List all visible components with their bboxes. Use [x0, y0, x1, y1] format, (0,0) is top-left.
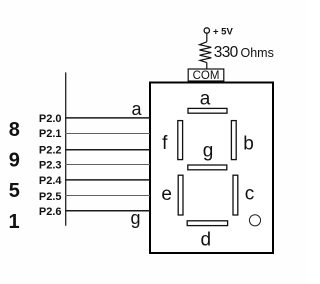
7-segment display body: [150, 83, 273, 254]
wire P2.4: [65, 179, 150, 181]
svg-text:5: 5: [9, 180, 20, 202]
segment a: [188, 108, 227, 113]
wire terminal to resistor: [206, 33, 208, 41]
svg-text:8: 8: [9, 119, 20, 141]
svg-text:g: g: [130, 208, 140, 228]
COM pin box: [188, 69, 224, 81]
svg-text:a: a: [200, 88, 211, 109]
svg-text:P2.6: P2.6: [39, 206, 62, 218]
segment e: [178, 175, 183, 215]
svg-text:P2.5: P2.5: [39, 191, 62, 203]
segment f: [178, 121, 183, 160]
wire P2.2: [65, 149, 150, 151]
wire resistor to COM: [206, 63, 208, 69]
segment d: [187, 221, 227, 226]
svg-text:9: 9: [9, 149, 20, 171]
wire P2.3: [65, 164, 150, 166]
wire P2.6 to segment g: [65, 210, 150, 212]
svg-text:P2.0: P2.0: [39, 113, 62, 125]
+5V supply terminal: [204, 28, 209, 33]
svg-text:g: g: [203, 140, 214, 161]
svg-text:f: f: [162, 133, 168, 154]
port bus vertical line: [65, 72, 67, 225]
svg-text:330: 330: [214, 44, 239, 61]
svg-text:1: 1: [8, 211, 19, 233]
wire P2.1: [65, 133, 150, 135]
segment c: [233, 175, 238, 215]
svg-text:P2.4: P2.4: [39, 175, 63, 187]
segment b: [231, 121, 236, 160]
decimal point: [249, 215, 260, 226]
svg-text:e: e: [161, 184, 172, 205]
svg-text:c: c: [245, 184, 255, 205]
svg-text:Ohms: Ohms: [241, 46, 274, 60]
segment g: [188, 165, 227, 170]
resistor R1 zigzag: [200, 42, 212, 63]
wire P2.0 to segment a: [65, 117, 150, 119]
svg-text:P2.1: P2.1: [39, 128, 62, 140]
svg-text:COM: COM: [193, 70, 220, 82]
svg-text:b: b: [243, 133, 254, 154]
svg-text:a: a: [131, 99, 142, 119]
svg-text:+ 5V: + 5V: [213, 27, 233, 38]
wire P2.5: [65, 195, 150, 197]
svg-text:d: d: [201, 230, 212, 251]
svg-text:P2.2: P2.2: [39, 144, 62, 156]
svg-text:P2.3: P2.3: [39, 160, 62, 172]
